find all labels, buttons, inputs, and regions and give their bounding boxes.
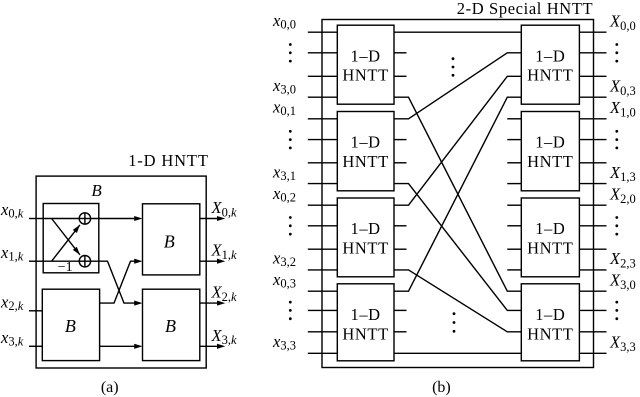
svg-text:x0,1: x0,1: [272, 98, 296, 119]
svg-text:−1: −1: [58, 260, 73, 275]
svg-text:X3,k: X3,k: [211, 326, 237, 347]
stub L1.out2: [394, 52, 407, 54]
output wire X row2 1: [579, 225, 606, 227]
output wire X row1 3: [579, 183, 606, 185]
stub R2.in1: [507, 118, 521, 120]
outer box 2-D special HNTT: [322, 20, 594, 368]
svg-text:x3,0: x3,0: [272, 76, 296, 97]
input wire x1,3: [308, 309, 338, 311]
left dots group 1: [289, 43, 292, 46]
input wire x0,2: [308, 204, 338, 206]
left 1-D HNTT box 3: [337, 198, 394, 277]
svg-text:HNTT: HNTT: [527, 152, 573, 171]
right dots group 4: [615, 301, 618, 304]
svg-text:X3,0: X3,0: [609, 270, 636, 291]
svg-text:X2,0: X2,0: [609, 184, 636, 205]
svg-text:HNTT: HNTT: [342, 239, 388, 258]
left 1-D HNTT box 4: [337, 284, 394, 361]
adder (circled plus) bottom: [79, 256, 90, 267]
svg-text:X0,3: X0,3: [609, 76, 636, 97]
wire x1 to bottom adder: [43, 260, 79, 262]
svg-text:x3,1: x3,1: [272, 162, 296, 183]
B box bottom-left: [42, 289, 99, 360]
svg-text:(b): (b): [432, 379, 451, 396]
output wire X row1 0: [579, 118, 606, 120]
svg-text:x1,k: x1,k: [0, 243, 24, 264]
butterfly box B: [43, 204, 99, 273]
svg-text:B: B: [65, 316, 76, 336]
stub R3.in2: [507, 225, 521, 227]
svg-text:(a): (a): [101, 379, 119, 396]
svg-text:HNTT: HNTT: [527, 324, 573, 343]
input wire x2,1: [308, 162, 338, 164]
cross wire x1 -> top adder: [52, 225, 80, 261]
stub R2.in2: [507, 139, 521, 141]
output wire X row0 2: [579, 75, 606, 77]
output wire X row1 2: [579, 162, 606, 164]
middle dots top: [452, 57, 455, 60]
output wire X row0 1: [579, 52, 606, 54]
svg-text:X1,k: X1,k: [211, 241, 237, 262]
output wire X row3 1: [579, 309, 606, 311]
input wire x2,2: [308, 248, 338, 250]
stub L2.out3: [394, 162, 407, 164]
stub R3.in4: [507, 269, 521, 271]
svg-text:x0,0: x0,0: [272, 11, 296, 32]
output wire X row3 2: [579, 331, 606, 333]
svg-text:2-D Special HNTT: 2-D Special HNTT: [457, 0, 594, 18]
cross wire x0 -> bottom adder: [52, 219, 80, 255]
stub L4.out2: [394, 309, 407, 311]
wire x1,k input: [29, 260, 43, 262]
right 1-D HNTT box 4: [521, 284, 579, 361]
stub L3.out2: [394, 225, 407, 227]
adder (circled plus) top: [79, 213, 90, 224]
left 1-D HNTT box 1: [337, 25, 394, 104]
svg-text:1–D: 1–D: [350, 305, 380, 324]
wire L1.out1 -> R1.in1 straight: [394, 31, 521, 33]
svg-text:x0,3: x0,3: [272, 270, 296, 291]
svg-text:1-D HNTT: 1-D HNTT: [128, 151, 209, 170]
output wire X row3 0: [579, 290, 606, 292]
left 1-D HNTT box 2: [337, 112, 394, 191]
svg-text:1–D: 1–D: [535, 133, 565, 152]
output wire X row1 1: [579, 139, 606, 141]
stub R2.in3: [507, 162, 521, 164]
wire top adder -> top-right B: [91, 218, 136, 220]
svg-text:x3,2: x3,2: [272, 249, 296, 270]
svg-text:B: B: [91, 181, 102, 200]
input wire x2,0: [308, 75, 338, 77]
wire x2,k input: [29, 310, 42, 312]
svg-text:1–D: 1–D: [350, 133, 380, 152]
output wire X0,k: [200, 218, 218, 220]
output wire X3,k: [200, 345, 218, 347]
input wire x3,0: [308, 96, 338, 98]
wire bottom-left B out1 -> cross up -> top-right B: [100, 261, 136, 303]
input wire x1,1: [308, 139, 338, 141]
stub L2.out2: [394, 139, 407, 141]
wire L4.out4 -> R4.in4 straight: [394, 352, 521, 354]
outer box 1-D HNTT: [36, 176, 206, 368]
svg-text:1–D: 1–D: [350, 219, 380, 238]
svg-text:1–D: 1–D: [535, 305, 565, 324]
output wire X row2 3: [579, 269, 606, 271]
input wire x0,1: [308, 118, 338, 120]
B box bottom-right: [143, 289, 200, 360]
wire L3.out1 -> R1.in3: [394, 76, 521, 205]
svg-text:1–D: 1–D: [535, 219, 565, 238]
output wire X1,k: [200, 260, 218, 262]
input wire x0,3: [308, 290, 338, 292]
wire L4.out1 -> R1.in4: [394, 97, 521, 291]
right dots group 1: [615, 43, 618, 46]
svg-text:B: B: [165, 316, 176, 336]
svg-text:HNTT: HNTT: [342, 66, 388, 85]
output wire X row0 0: [579, 31, 606, 33]
wire L3.out4 -> R4.in3: [394, 270, 521, 332]
svg-text:HNTT: HNTT: [527, 66, 573, 85]
input wire x1,0: [308, 52, 338, 54]
left dots group 3: [289, 216, 292, 219]
input wire x2,3: [308, 331, 338, 333]
middle dots bottom: [453, 312, 456, 315]
wire L1.out4 -> R4.in1: [394, 97, 521, 291]
right 1-D HNTT box 1: [521, 25, 579, 104]
right 1-D HNTT box 3: [521, 198, 579, 277]
left dots group 2: [289, 130, 292, 133]
left dots group 4: [289, 301, 292, 304]
svg-text:x0,k: x0,k: [0, 200, 24, 221]
output wire X row2 0: [579, 204, 606, 206]
stub L4.out3: [394, 331, 407, 333]
output wire X row3 3: [579, 352, 606, 354]
right 1-D HNTT box 2: [521, 112, 579, 191]
wire bottom adder -> cross down -> bottom-right B: [91, 261, 136, 303]
input wire x0,0: [308, 31, 338, 33]
input wire x3,1: [308, 183, 338, 185]
input wire x3,3: [308, 352, 338, 354]
right dots group 3: [615, 216, 618, 219]
svg-text:x3,3: x3,3: [272, 332, 296, 353]
stub R3.in1: [507, 204, 521, 206]
right dots group 2: [615, 130, 618, 133]
svg-text:X0,k: X0,k: [211, 198, 237, 219]
stub L1.out3: [394, 75, 407, 77]
svg-text:X2,3: X2,3: [609, 249, 636, 270]
svg-text:HNTT: HNTT: [342, 152, 388, 171]
svg-text:HNTT: HNTT: [342, 324, 388, 343]
stub R2.in4: [507, 183, 521, 185]
svg-text:x3,k: x3,k: [0, 328, 24, 349]
output wire X2,k: [200, 302, 218, 304]
wire bottom-left B out2 -> bottom-right B: [100, 345, 136, 347]
svg-text:x2,k: x2,k: [0, 292, 24, 313]
svg-text:x0,2: x0,2: [272, 184, 296, 205]
svg-text:1–D: 1–D: [350, 46, 380, 65]
wire x0,k input: [29, 218, 43, 220]
svg-text:X3,3: X3,3: [609, 333, 636, 354]
svg-text:B: B: [164, 231, 175, 251]
input wire x3,2: [308, 269, 338, 271]
svg-text:X2,k: X2,k: [211, 283, 237, 304]
svg-text:HNTT: HNTT: [527, 239, 573, 258]
stub L3.out3: [394, 248, 407, 250]
input wire x1,2: [308, 225, 338, 227]
wire x3,k input: [29, 345, 42, 347]
stub R3.in3: [507, 248, 521, 250]
svg-text:1–D: 1–D: [535, 46, 565, 65]
wire x0 to top adder: [43, 218, 79, 220]
svg-text:X1,3: X1,3: [609, 163, 636, 184]
B box top-right: [143, 204, 200, 275]
svg-text:X1,0: X1,0: [609, 98, 636, 119]
svg-text:X0,0: X0,0: [609, 11, 636, 32]
output wire X row2 2: [579, 248, 606, 250]
wire L2.out1 -> R1.in2: [394, 53, 521, 119]
output wire X row0 3: [579, 96, 606, 98]
wire L2.out4 -> R4.in2: [394, 184, 521, 311]
